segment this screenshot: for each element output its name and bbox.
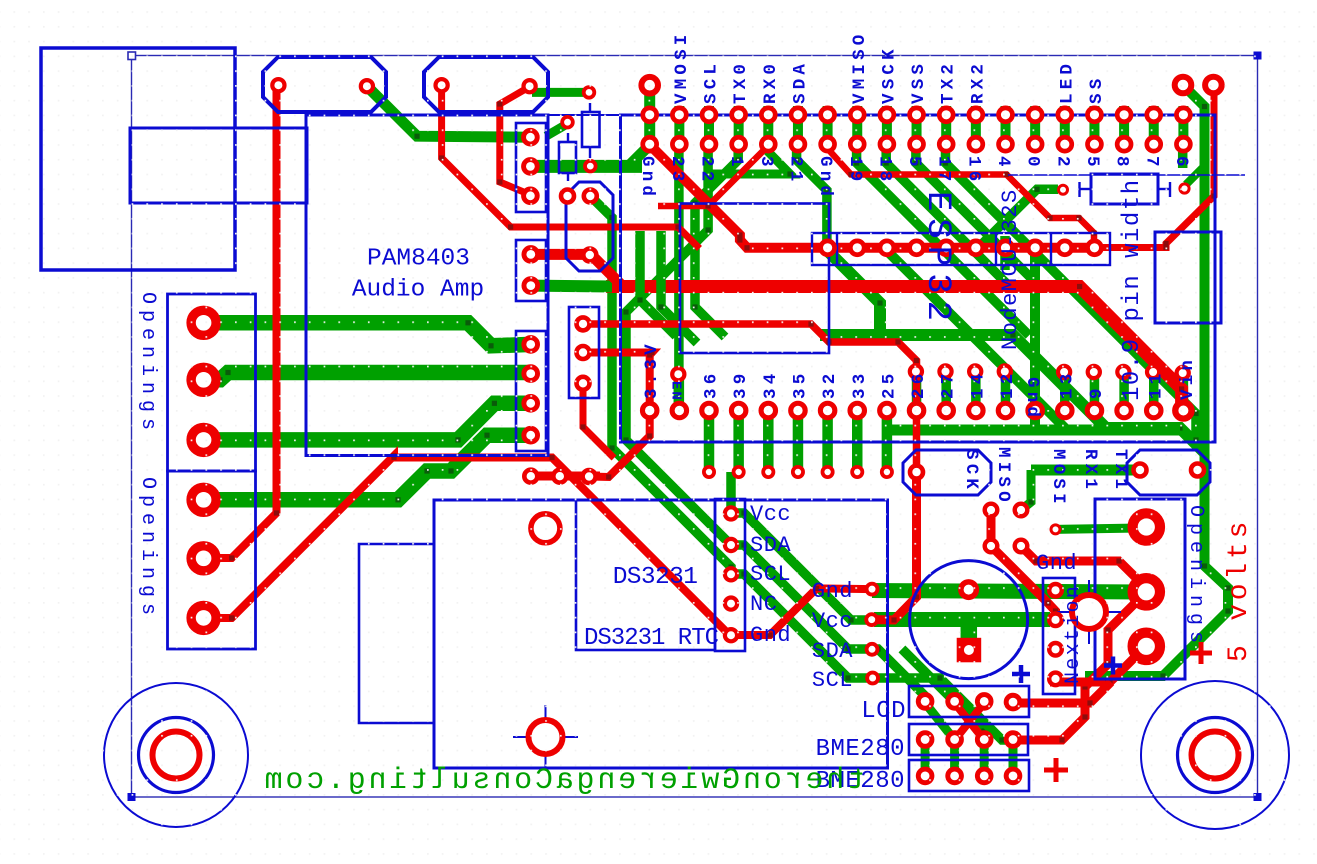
svg-text:DS3231 RTC: DS3231 RTC	[584, 625, 719, 652]
pad: buzzer top	[961, 582, 977, 598]
wire: red feed 254	[531, 252, 622, 286]
wire: red X cross 1	[955, 703, 985, 740]
label: Openings right	[1184, 505, 1207, 649]
wire: audio green 3	[204, 401, 531, 443]
module: LCD outline	[434, 500, 888, 768]
mounting hole bottom-right	[1141, 681, 1289, 829]
connector: stadium SCK	[903, 450, 991, 495]
pad: mounting red bottom-right	[1192, 732, 1239, 779]
svg-text:RX1: RX1	[1080, 449, 1100, 493]
svg-text:ESP32: ESP32	[918, 191, 956, 328]
wire: green Gnd band buzzer	[872, 591, 1146, 593]
svg-text:MISO: MISO	[993, 447, 1013, 506]
svg-text:22: 22	[697, 156, 717, 185]
wire: green Vcc diag	[731, 510, 872, 622]
connector: LCD header	[909, 686, 1029, 717]
svg-text:25: 25	[879, 370, 899, 399]
pads: single row header	[821, 241, 1102, 255]
svg-text:17: 17	[934, 156, 954, 185]
pads: openings block1	[191, 310, 216, 452]
label: ESP32	[918, 191, 956, 328]
wire: red rowB col1 diag	[583, 350, 655, 480]
pad: crosshair ring 1089,612	[1072, 595, 1106, 629]
connector: USB outline	[130, 128, 307, 203]
wire: green fan 975	[978, 187, 1058, 248]
wire: green SDA to BME	[902, 649, 987, 740]
svg-text:Gnd: Gnd	[1036, 551, 1077, 576]
pads: openings block2	[191, 487, 216, 630]
svg-text:0: 0	[1023, 156, 1043, 171]
wire: red Gnd link right	[731, 586, 872, 638]
connector: Openings block 1	[168, 294, 256, 471]
svg-text:39: 39	[731, 370, 751, 399]
wire: audio green 4	[204, 433, 531, 503]
crosshair pad 545,737	[513, 705, 578, 769]
wire: red to big pad 592	[1021, 546, 1149, 592]
capacitor C2	[559, 133, 576, 181]
wire: green stubs BME rows	[925, 740, 1013, 776]
pad: crosshair ring 545,737	[529, 720, 563, 754]
svg-text:BME280: BME280	[816, 736, 905, 763]
label: NodeMCU-32S	[998, 188, 1023, 350]
label: Openings 1	[136, 292, 159, 436]
label: EN	[668, 381, 684, 402]
svg-text:Audio Amp: Audio Amp	[352, 277, 484, 304]
svg-text:PAM8403: PAM8403	[367, 246, 470, 273]
label: Openings 2	[136, 477, 159, 621]
pad: red ring 545,528	[531, 514, 560, 543]
pad: Vin big	[1175, 402, 1191, 418]
wire: red gnd mid link	[827, 148, 1097, 248]
label: website green mirrored	[262, 764, 865, 798]
wire: red 3pad row	[528, 472, 600, 481]
pads: right power block	[1133, 513, 1160, 660]
wire: green verticals below row B	[709, 411, 887, 469]
wire: green 1055,529	[1056, 528, 1141, 529]
pads: red 3pad row	[524, 470, 595, 483]
connector: BME280 header 2	[909, 760, 1029, 791]
wire: green stubs bottom double rows	[679, 372, 1183, 411]
svg-text:TX0: TX0	[731, 60, 751, 104]
wire: red X cross 2	[955, 703, 985, 740]
wire: green band MOSI	[1021, 470, 1136, 510]
svg-text:theronGwierengaConsulting.com: theronGwierengaConsulting.com	[262, 764, 865, 798]
pads: pam 4pin	[524, 338, 538, 443]
wire: audio green 1	[204, 320, 531, 348]
svg-text:27: 27	[939, 370, 959, 399]
pads: jack stadium	[561, 190, 597, 262]
wire: green LCD feed 1	[872, 646, 928, 703]
connector: right power block	[1095, 499, 1185, 679]
connector: jack stadium	[566, 182, 613, 271]
wire: green stub 568	[546, 124, 568, 137]
wire: buzzer stub	[961, 619, 978, 648]
svg-text:RX2: RX2	[968, 60, 988, 104]
svg-text:VMISO: VMISO	[850, 30, 870, 104]
plus mark blue block	[1104, 657, 1122, 675]
wire: SDA long green	[623, 144, 731, 545]
label: DS3231	[613, 564, 698, 591]
wire: green collector 429	[886, 425, 1180, 436]
labels: I2C pins	[812, 579, 853, 693]
wire: green TX0 net	[708, 151, 793, 177]
wire: red 583 diag	[580, 383, 614, 458]
svg-text:SDA: SDA	[750, 533, 791, 558]
svg-text:Openings: Openings	[1184, 505, 1207, 649]
wire: red SCK down to Vcc	[872, 472, 919, 623]
svg-text:5 volts: 5 volts	[1224, 518, 1255, 662]
wire: big green PAM to Gnd	[530, 160, 642, 173]
svg-text:23: 23	[667, 156, 687, 185]
wire: green fan 856	[854, 144, 1029, 335]
label: Audio Amp	[352, 277, 484, 304]
pad: small 1184,188	[1180, 184, 1189, 193]
wire: Gnd column green	[628, 85, 650, 167]
svg-text:13: 13	[1057, 370, 1077, 399]
svg-text:NodeMCU-32S: NodeMCU-32S	[998, 188, 1023, 350]
pads: top right big	[1175, 77, 1222, 94]
pad: small nextion top	[1051, 525, 1060, 534]
wire: red LCD pad right	[1013, 682, 1111, 706]
pads: pam 2pin	[524, 248, 538, 293]
wire: green corridor B	[886, 250, 1067, 430]
pads: bottom row A	[672, 365, 1189, 380]
svg-text:5: 5	[904, 156, 924, 171]
buzzer outline	[910, 561, 1028, 679]
pads: speaker octagon	[272, 79, 535, 92]
wire: green hooks mid	[637, 231, 697, 343]
wire: red speaker2 vertical	[439, 85, 700, 249]
pad: Gnd big top	[641, 77, 658, 94]
capacitor C1	[582, 103, 600, 158]
wire: green Gnd col down	[1030, 240, 1040, 430]
label: Gnd nextion	[1036, 551, 1077, 576]
svg-text:18: 18	[874, 156, 894, 185]
connector: pam right 2pin	[516, 240, 546, 301]
labels: bottom gpio numbers	[642, 340, 1166, 399]
svg-text:34: 34	[761, 370, 781, 399]
pads: I2C column	[866, 584, 878, 684]
wire: green hook 695	[692, 144, 740, 337]
wire: green 21 jog	[794, 144, 830, 252]
component: right rect	[1155, 232, 1221, 323]
label: LCD	[861, 698, 906, 725]
svg-text:Gnd: Gnd	[1022, 377, 1042, 421]
wire: red 324 to SCK	[583, 321, 919, 472]
pads: pam 3pin	[524, 130, 538, 202]
svg-text:SCK: SCK	[961, 449, 981, 493]
connector: pam right 4pin	[516, 331, 546, 451]
connector: 3pin column 583	[569, 307, 599, 398]
svg-text:Openings: Openings	[136, 477, 159, 621]
pad: SCK stadium	[910, 466, 923, 479]
wire: green fan 886	[884, 144, 1012, 289]
pads: 3pin column 583	[577, 317, 590, 389]
label: PAM8403	[367, 246, 470, 273]
svg-text:SDA: SDA	[790, 60, 810, 104]
label: MISO	[993, 447, 1013, 506]
label: Nextion	[1062, 584, 1085, 684]
wire: green fan 916	[913, 144, 1040, 287]
svg-text:3: 3	[756, 156, 776, 171]
wire: green SCL to BME	[872, 675, 1013, 742]
svg-text:21: 21	[785, 156, 805, 185]
svg-text:SCL: SCL	[702, 60, 722, 104]
wire: green stub 731	[726, 472, 736, 513]
pads: small top mid	[562, 87, 595, 171]
label: 10.9 pin width	[1119, 178, 1146, 401]
svg-text:MOSI: MOSI	[1048, 449, 1068, 508]
pads: Nextion	[1049, 584, 1062, 685]
module: DS3231 outline	[576, 500, 715, 650]
connector: single row header	[812, 233, 1110, 265]
svg-text:VSS: VSS	[909, 60, 929, 104]
wire: green stub 589	[532, 88, 589, 97]
svg-text:Gnd: Gnd	[637, 156, 657, 200]
svg-text:26: 26	[909, 370, 929, 399]
wire: red oct2 pad2	[497, 87, 530, 195]
wire: green 6 stub	[1178, 144, 1188, 168]
wire: green fan 945	[943, 144, 1206, 450]
label: MOSI	[1048, 449, 1068, 508]
svg-text:14: 14	[968, 370, 988, 399]
svg-text:DS3231: DS3231	[613, 564, 698, 591]
label: BME280 2	[816, 768, 905, 795]
label: Vin	[1178, 356, 1198, 400]
wire: green LCD feed 2	[902, 649, 955, 701]
wire: EN column green vertical	[674, 144, 684, 411]
label: TX1	[1110, 449, 1130, 493]
svg-text:1: 1	[726, 156, 746, 171]
svg-text:SCL: SCL	[812, 668, 853, 693]
plus mark red right	[1190, 642, 1212, 664]
wire: big green diagonal mid	[820, 250, 1205, 453]
wire: green X cross	[925, 703, 955, 740]
label: DS3231 RTC	[584, 625, 719, 652]
crosshair pad 1089,612	[1057, 580, 1121, 644]
pads: bottom row B	[642, 403, 1161, 418]
wire: green branch pad 1184,188	[1186, 166, 1205, 185]
label: SCK	[961, 449, 981, 493]
svg-text:SS: SS	[1087, 75, 1107, 104]
svg-text:9: 9	[1087, 384, 1107, 399]
wire: red wide 287 to Vin	[606, 284, 1184, 411]
connector: DC jack outline	[41, 48, 235, 270]
svg-text:36: 36	[702, 370, 722, 399]
label: 5 volts red	[1224, 518, 1255, 662]
svg-text:33: 33	[850, 370, 870, 399]
svg-text:Nextion: Nextion	[1062, 584, 1085, 684]
wire: green stubs top header rows	[650, 106, 1184, 152]
svg-text:19: 19	[845, 156, 865, 185]
svg-text:VMOSI: VMOSI	[672, 30, 692, 104]
resistor: pin width symbol	[1008, 174, 1245, 204]
svg-text:Vin: Vin	[1178, 356, 1198, 400]
pads: BME280 row1	[918, 733, 1020, 747]
connector: speaker1 outline	[263, 57, 386, 112]
svg-text:Gnd: Gnd	[812, 579, 853, 604]
svg-text:10.9 pin width: 10.9 pin width	[1119, 178, 1146, 401]
wire: green top right	[1085, 85, 1231, 679]
module: LCD notch	[359, 544, 434, 723]
wire: red thin 206	[658, 145, 769, 209]
pad: pin width	[1059, 185, 1068, 194]
svg-text:TX2: TX2	[939, 60, 959, 104]
wire: green under 287	[531, 280, 612, 293]
svg-text:4: 4	[993, 156, 1013, 171]
svg-text:SCL: SCL	[750, 562, 791, 587]
labels: header gpio numbers	[637, 156, 1191, 200]
wire: green band 614	[874, 612, 1050, 627]
pads: bottom service row	[704, 467, 892, 477]
connector: Openings block 2	[168, 471, 256, 649]
svg-text:Openings: Openings	[136, 292, 159, 436]
svg-text:6: 6	[1171, 156, 1191, 171]
svg-text:8: 8	[1112, 156, 1132, 171]
wire: red big pad 592 to BME	[1013, 592, 1146, 743]
wire: green SCL diag	[731, 571, 872, 680]
module: ESP32 inner rect	[680, 204, 829, 354]
connector: DS3231 header	[715, 499, 745, 651]
svg-text:2: 2	[1052, 156, 1072, 171]
plus mark red BME	[1044, 758, 1068, 782]
wire: red top right thin	[1094, 85, 1217, 250]
wire: audio green 2	[204, 370, 531, 383]
wire: green SDA diag	[731, 542, 872, 651]
svg-text:7: 7	[1141, 156, 1161, 171]
pads: 2x2 group	[985, 504, 1028, 553]
connector: pam right 3pin	[516, 123, 546, 212]
pads: BME280 row2	[918, 769, 1020, 783]
wire: red speaker1 vertical	[204, 85, 280, 561]
svg-text:VSCK: VSCK	[879, 45, 899, 104]
labels: top header names	[672, 30, 1107, 104]
pad: mounting red bottom-left	[153, 732, 200, 779]
wire: red long diagonal D2	[204, 453, 732, 637]
pads: header row2	[643, 137, 1191, 151]
svg-text:TX1: TX1	[1110, 449, 1130, 493]
svg-text:LED: LED	[1057, 60, 1077, 104]
wire: green 12 below	[1000, 236, 1010, 270]
module: PAM8403 outline	[306, 115, 548, 456]
module: ESP32 outline	[546, 115, 1215, 442]
pad: buzzer square	[957, 638, 982, 663]
wire: red wide 248	[650, 145, 1094, 251]
label: Gnd bottom	[1022, 377, 1042, 421]
svg-text:Gnd: Gnd	[815, 156, 835, 200]
svg-text:RX0: RX0	[761, 60, 781, 104]
pads: stadium TX1	[1134, 464, 1205, 477]
svg-text:11: 11	[1146, 370, 1166, 399]
svg-text:Vcc: Vcc	[812, 609, 853, 634]
label: RX1	[1080, 449, 1100, 493]
svg-text:3.3V: 3.3V	[642, 340, 662, 399]
svg-text:NC: NC	[750, 592, 777, 617]
svg-text:LCD: LCD	[861, 698, 906, 725]
svg-text:EN: EN	[668, 381, 684, 402]
connector: stadium TX1	[1127, 450, 1210, 495]
wire: red 682 to big pad 646	[1050, 646, 1146, 684]
mounting hole bottom-left	[104, 683, 248, 827]
pads: LCD header	[918, 695, 1020, 709]
wire: red 2x2 link	[988, 510, 1058, 617]
svg-text:16: 16	[963, 156, 983, 185]
pads: DS3231 header	[725, 507, 737, 641]
svg-text:5: 5	[1082, 156, 1102, 171]
svg-text:Gnd: Gnd	[750, 623, 791, 648]
board outline	[128, 52, 1262, 802]
svg-text:Vcc: Vcc	[750, 502, 791, 527]
wire: speaker green left	[367, 86, 531, 139]
svg-text:32: 32	[820, 370, 840, 399]
svg-text:SDA: SDA	[812, 639, 853, 664]
svg-text:35: 35	[790, 370, 810, 399]
wire: SCL long green	[590, 196, 733, 574]
connector: BME280 header 1	[909, 724, 1028, 755]
connector: speaker2 outline	[424, 57, 548, 112]
labels: DS3231 pins	[750, 502, 791, 648]
connector: Nextion	[1043, 578, 1075, 694]
label: BME280 1	[816, 736, 905, 763]
pads: header row1	[643, 108, 1191, 122]
svg-text:12: 12	[998, 370, 1018, 399]
plus mark blue buzzer	[1012, 665, 1030, 683]
